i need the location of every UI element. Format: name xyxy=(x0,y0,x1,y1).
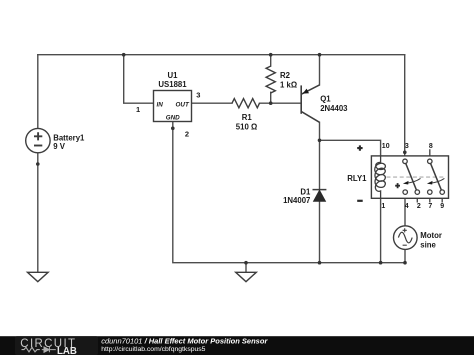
svg-text:Motor: Motor xyxy=(420,231,442,240)
wire U1 OUT to R1 xyxy=(192,102,233,104)
wire relay pin 7 stub xyxy=(429,194,431,202)
svg-text:1: 1 xyxy=(136,105,140,114)
svg-text:IN: IN xyxy=(157,101,164,108)
wire node to D1 cathode xyxy=(319,140,321,189)
footer logo badge xyxy=(15,336,98,355)
wire relay pin 9 stub xyxy=(441,194,443,202)
wire D1 anode to bottom rail xyxy=(319,201,321,262)
wire top rail xyxy=(38,54,405,56)
svg-text:2: 2 xyxy=(185,130,189,139)
wire U1 IN branch xyxy=(124,55,154,103)
relay switch B arrow xyxy=(430,178,444,183)
wire U1 GND to bottom rail xyxy=(173,122,405,263)
relay switch A lever xyxy=(406,163,417,190)
diode D1 1N4007 xyxy=(313,189,327,191)
node: collector/D1/coil junction xyxy=(318,139,322,143)
wire R2 bottom lead xyxy=(270,92,272,103)
transistor Q1 2N4403 xyxy=(301,85,319,122)
relay switch B contacts xyxy=(428,159,445,194)
svg-text:Q1: Q1 xyxy=(320,95,331,104)
wire node to relay coil pin 10 xyxy=(320,140,381,162)
ground (bottom rail) xyxy=(236,272,257,281)
wire relay pin 1 coil bottom to rail xyxy=(380,191,382,263)
svg-text:1N4007: 1N4007 xyxy=(283,196,310,205)
svg-text:510 Ω: 510 Ω xyxy=(236,122,257,131)
ground (battery) xyxy=(28,272,49,281)
wire battery top xyxy=(37,55,39,129)
wire relay pin 4 to motor xyxy=(404,194,406,226)
node: D1 anode junction xyxy=(318,261,322,265)
relay switch A arrow xyxy=(406,178,421,183)
wire relay pin 8 stub xyxy=(429,150,431,159)
svg-text:9 V: 9 V xyxy=(53,142,66,151)
wire R2 top lead xyxy=(270,55,272,66)
relay dashed actuator line xyxy=(387,176,447,178)
svg-text:U1: U1 xyxy=(168,71,179,80)
wire rail to relay pin 3 xyxy=(404,55,406,159)
svg-text:3: 3 xyxy=(196,91,200,100)
svg-text:10: 10 xyxy=(382,143,390,150)
relay RLY1 box xyxy=(371,156,448,198)
op-amp U1 box US1881 xyxy=(154,91,192,122)
svg-text:8: 8 xyxy=(429,143,433,150)
svg-text:sine: sine xyxy=(420,240,436,249)
svg-text:2N4403: 2N4403 xyxy=(320,104,348,113)
svg-text:4: 4 xyxy=(405,203,409,210)
svg-text:GND: GND xyxy=(166,115,180,122)
wire ground2 stub xyxy=(245,263,247,273)
wire motor bottom to rail xyxy=(404,249,406,262)
wire R1 to Q1 base xyxy=(260,102,302,104)
node: U1 GND terminal xyxy=(171,127,175,131)
svg-text:1 kΩ: 1 kΩ xyxy=(280,80,297,89)
wire battery bottom to ground xyxy=(37,153,39,272)
relay plus inside xyxy=(395,183,400,188)
footer bar xyxy=(0,336,474,355)
relay coil minus label xyxy=(357,200,363,202)
svg-text:2: 2 xyxy=(417,203,421,210)
svg-text:LAB: LAB xyxy=(57,346,77,355)
svg-text:7: 7 xyxy=(428,203,432,210)
wire Q1 emitter to rail xyxy=(319,55,321,85)
svg-text:3: 3 xyxy=(405,143,409,150)
svg-text:RLY1: RLY1 xyxy=(347,174,367,183)
svg-text:1: 1 xyxy=(381,203,385,210)
relay coil plus label xyxy=(357,145,362,150)
relay switch A contacts xyxy=(403,159,420,194)
svg-text:R2: R2 xyxy=(280,71,291,80)
svg-text:R1: R1 xyxy=(242,113,253,122)
node: relay pin 3 terminal xyxy=(403,151,407,155)
node: ground2 junction xyxy=(244,261,248,265)
motor sine AC source xyxy=(394,226,418,250)
node: rail to Q1 emitter xyxy=(318,53,322,57)
svg-text:US1881: US1881 xyxy=(158,80,187,89)
svg-text:OUT: OUT xyxy=(176,101,190,108)
wire Q1 collector down xyxy=(319,122,321,140)
wire relay pin 2 stub xyxy=(416,194,418,202)
svg-text:9: 9 xyxy=(440,203,444,210)
node: battery minus terminal xyxy=(36,162,40,166)
resistor R1 xyxy=(232,99,260,108)
node: motor bottom junction xyxy=(403,261,407,265)
node: coil bottom junction xyxy=(379,261,383,265)
relay switch B lever xyxy=(431,163,442,190)
svg-text:cdunn70101 / Hall Effect Motor: cdunn70101 / Hall Effect Motor Position … xyxy=(101,337,268,346)
logo waveform glyph xyxy=(22,347,40,352)
battery Battery1 xyxy=(26,128,50,152)
node: rail to R2 xyxy=(269,53,273,57)
relay coil xyxy=(375,156,386,198)
node: R1/R2/base junction xyxy=(269,101,273,105)
resistor R2 xyxy=(266,66,275,93)
svg-text:http://circuitlab.com/cbfqngtk: http://circuitlab.com/cbfqngtkspus5 xyxy=(101,346,205,353)
node: rail to U1 IN xyxy=(122,53,126,57)
